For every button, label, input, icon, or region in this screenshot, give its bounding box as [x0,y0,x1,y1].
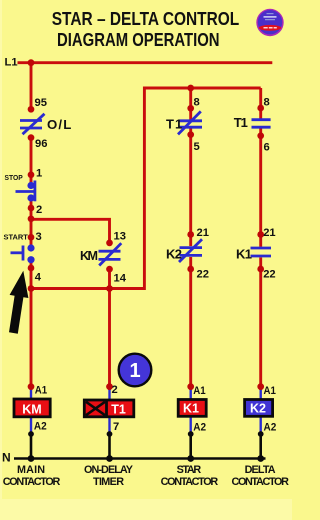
svg-text:96: 96 [35,138,47,150]
svg-text:STAR: STAR [177,464,202,476]
svg-text:K2: K2 [166,246,182,261]
svg-text:21: 21 [197,227,209,239]
svg-text:TIMER: TIMER [93,476,124,488]
svg-text:STAR – DELTA CONTROL: STAR – DELTA CONTROL [52,9,240,29]
svg-text:T1: T1 [166,116,182,131]
svg-text:7: 7 [113,421,119,433]
svg-text:DELTA: DELTA [245,464,276,476]
svg-text:MAIN: MAIN [17,464,45,476]
svg-text:8: 8 [264,97,270,109]
svg-text:4: 4 [35,272,42,284]
svg-text:A1: A1 [264,385,276,397]
svg-text:CONTACTOR: CONTACTOR [161,476,219,488]
svg-text:A1: A1 [193,385,205,397]
svg-text:DIAGRAM OPERATION: DIAGRAM OPERATION [57,30,220,50]
svg-text:21: 21 [263,227,275,239]
svg-text:K2: K2 [250,402,266,416]
svg-text:3: 3 [36,231,42,243]
svg-text:22: 22 [197,269,209,281]
svg-text:ON-DELAY: ON-DELAY [84,464,134,476]
svg-text:22: 22 [263,269,275,281]
svg-text:O/L: O/L [47,117,71,132]
svg-text:T1: T1 [234,115,248,130]
svg-text:A1: A1 [35,385,47,397]
svg-text:START: START [4,234,29,241]
svg-text:L1: L1 [5,57,18,69]
svg-text:CONTACTOR: CONTACTOR [231,476,289,488]
svg-text:95: 95 [35,97,47,109]
svg-text:6: 6 [264,142,270,154]
svg-text:KM: KM [22,403,41,417]
svg-text:K1: K1 [236,246,252,261]
svg-text:14: 14 [114,273,127,285]
svg-text:2: 2 [112,384,118,396]
svg-text:CONTACTOR: CONTACTOR [3,476,61,488]
svg-text:STOP: STOP [5,175,24,182]
svg-text:A2: A2 [193,422,206,434]
svg-text:8: 8 [194,97,200,109]
svg-text:13: 13 [114,231,126,243]
svg-text:A2: A2 [264,422,277,434]
svg-text:T1: T1 [111,403,126,417]
svg-text:KM: KM [80,249,98,263]
svg-text:K1: K1 [183,402,199,416]
svg-text:2: 2 [36,204,42,216]
svg-text:A2: A2 [34,421,47,433]
svg-text:1: 1 [36,168,42,180]
svg-text:1: 1 [129,360,140,382]
svg-text:5: 5 [194,141,200,153]
svg-text:N: N [2,450,11,464]
